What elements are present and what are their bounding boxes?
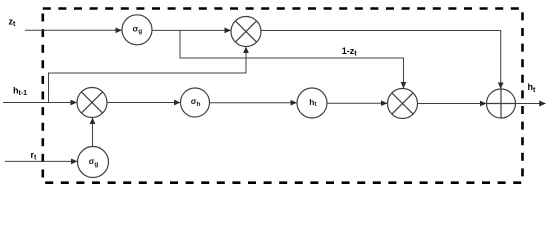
svg-text:1-zt: 1-zt <box>342 46 358 58</box>
node ht circle <box>297 88 327 118</box>
multiply node top (x in circle) <box>231 17 261 47</box>
svg-text:ht: ht <box>528 82 537 94</box>
gate sigma_g bottom circle <box>78 147 109 178</box>
wire top multiply to adder <box>261 31 501 89</box>
wire z_t input <box>25 29 122 31</box>
adder node (plus in circle) <box>487 89 516 118</box>
wire multiply2 to adder <box>418 103 487 105</box>
wire h_t-1 input <box>3 102 77 104</box>
svg-text:ht-1: ht-1 <box>13 85 27 97</box>
wire sigma_g bottom to multiply1 <box>92 118 94 147</box>
wire h_t-1 branch to top multiply <box>49 47 247 103</box>
svg-text:zt: zt <box>9 16 17 28</box>
wire 1-z_t branch <box>180 30 404 88</box>
wire multiply1 to sigma_h <box>107 102 180 104</box>
wire ht to multiply2 <box>327 102 387 104</box>
multiply node 1 (x in circle) <box>77 88 107 118</box>
dashed cell boundary <box>43 9 523 183</box>
wire sigma_g to top multiply <box>152 29 231 31</box>
wire adder to output h_t <box>516 103 546 105</box>
wire r_t input <box>5 160 77 162</box>
wire sigma_h to ht <box>210 102 297 104</box>
gate sigma_g top circle <box>122 15 152 45</box>
svg-text:rt: rt <box>31 150 38 162</box>
gate sigma_h circle <box>181 88 210 117</box>
multiply node 2 (x in circle) <box>388 89 418 119</box>
